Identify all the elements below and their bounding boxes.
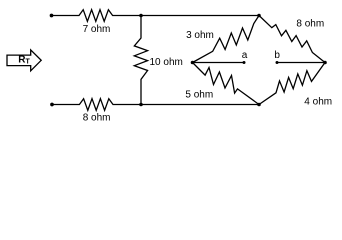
svg-text:7 ohm: 7 ohm: [83, 24, 111, 35]
svg-text:5 ohm: 5 ohm: [185, 90, 213, 101]
svg-text:b: b: [274, 50, 280, 61]
svg-text:8 ohm: 8 ohm: [296, 19, 324, 30]
svg-text:3 ohm: 3 ohm: [186, 30, 214, 41]
svg-text:8 ohm: 8 ohm: [83, 112, 111, 123]
svg-text:10 ohm: 10 ohm: [150, 57, 183, 68]
svg-text:a: a: [242, 50, 248, 61]
svg-text:4 ohm: 4 ohm: [304, 96, 332, 107]
